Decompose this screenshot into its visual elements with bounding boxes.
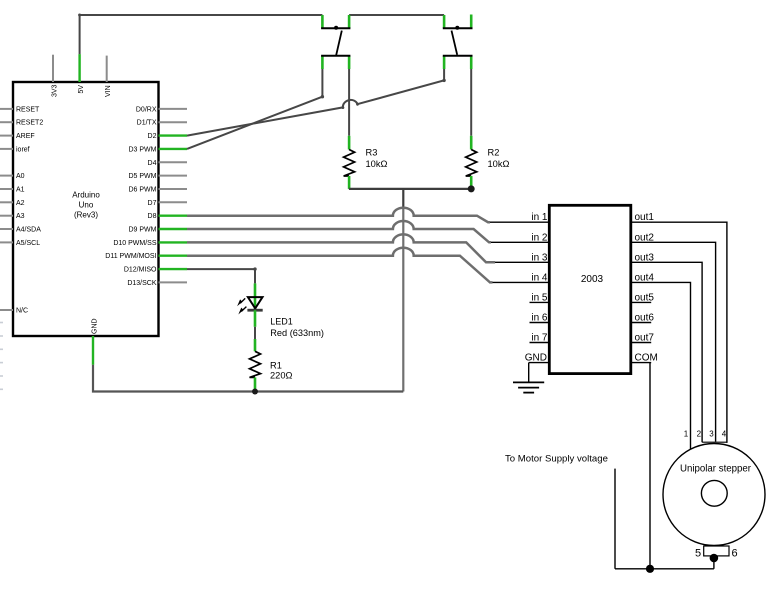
wire D2 to S2 bottom-left (with hop over S1-R3 wire): [187, 69, 444, 136]
svg-text:GND: GND: [92, 318, 99, 334]
wire out1 to stepper pin 4: [651, 222, 727, 443]
S2 lever: [452, 31, 458, 55]
svg-text:D8: D8: [148, 213, 157, 220]
svg-text:A5/SCL: A5/SCL: [16, 240, 40, 247]
svg-text:6: 6: [731, 548, 737, 560]
wire D9 to in2 (hop over vertical): [187, 221, 491, 242]
S1 leg bottom-left: [321, 56, 324, 69]
svg-text:A4/SDA: A4/SDA: [16, 227, 41, 234]
svg-text:VIN: VIN: [105, 85, 112, 97]
S1 pivot dot: [334, 26, 338, 30]
svg-text:in 3: in 3: [531, 252, 548, 263]
M1 pin numbers 1-4: [684, 430, 727, 439]
Arduino top pin stub 5V (green): [78, 54, 80, 82]
bend dot 5V wire corner: [78, 14, 81, 17]
svg-text:10kΩ: 10kΩ: [488, 159, 510, 169]
svg-text:LED1: LED1: [270, 317, 293, 327]
wire D12 to LED1: [187, 269, 255, 283]
LED1: [237, 283, 324, 338]
S1 leg bottom-right: [348, 56, 351, 69]
svg-text:10kΩ: 10kΩ: [366, 159, 388, 169]
pin in1: [487, 221, 549, 223]
pin out2: [631, 241, 651, 243]
S1 top bar: [321, 27, 350, 29]
R1 bottom leg: [254, 377, 257, 391]
svg-text:AREF: AREF: [16, 133, 35, 140]
S2 pivot dot: [455, 26, 459, 30]
svg-text:To Motor Supply voltage: To Motor Supply voltage: [505, 454, 608, 465]
S1 leg top-left: [321, 15, 324, 28]
IC right pin lines: [631, 222, 651, 362]
M1 body circle: [663, 444, 765, 546]
bend dot D3 wire: [321, 95, 324, 98]
ground symbol: [513, 382, 544, 392]
resistor R2: [466, 136, 510, 189]
svg-text:RESET: RESET: [16, 106, 40, 113]
R3 zigzag: [344, 150, 355, 177]
R1 zigzag: [250, 351, 261, 377]
svg-text:R3: R3: [366, 148, 378, 158]
R3 bottom leg: [348, 176, 351, 189]
pin out7: [631, 342, 651, 344]
svg-text:Uno: Uno: [79, 201, 94, 210]
bend dot D2 wire: [442, 79, 445, 82]
svg-text:in 1: in 1: [531, 212, 548, 223]
Arduino bottom pin stub GND (green): [92, 336, 94, 365]
LED1 cathode bar: [247, 309, 262, 312]
svg-text:D11 PWM/MOSI: D11 PWM/MOSI: [105, 253, 156, 260]
svg-text:D3 PWM: D3 PWM: [129, 146, 157, 153]
LED1 triangle: [248, 297, 263, 308]
S1 leg top-right: [348, 15, 351, 28]
svg-text:Unipolar stepper: Unipolar stepper: [680, 464, 752, 475]
pin out3: [631, 261, 651, 263]
svg-text:COM: COM: [635, 352, 658, 363]
junction dot at R2 bottom: [468, 185, 475, 192]
svg-text:RESET2: RESET2: [16, 120, 43, 127]
wire out2 to stepper pin 3: [651, 242, 716, 441]
wire COM down: [649, 363, 651, 569]
svg-text:D1/TX: D1/TX: [137, 120, 157, 127]
svg-text:D9 PWM: D9 PWM: [129, 227, 157, 234]
wire junction down to ground rail (gray segment): [402, 209, 404, 392]
wire stepper common down: [713, 558, 715, 569]
M1 shaft circle: [701, 480, 727, 506]
R2 zigzag: [466, 150, 477, 177]
Arduino right unconnected pin stubs: [159, 109, 188, 283]
wire S2 bottom-right to R2: [470, 69, 472, 136]
svg-text:D2: D2: [148, 133, 157, 140]
pin out4: [631, 281, 651, 283]
wire out4 to stepper pin 1: [651, 282, 691, 449]
Arduino left pin labels: [16, 106, 43, 314]
resistor R3: [344, 136, 388, 189]
pin in6: [530, 322, 550, 324]
svg-text:in 6: in 6: [531, 313, 548, 324]
wire D8 to in1 (hop over vertical): [187, 208, 490, 223]
LED1 arrow 2: [241, 307, 246, 312]
junction dot COM/bottom wire: [646, 565, 654, 573]
wire top rail between buttons: [349, 14, 444, 16]
wire D3 to S1 bottom-left: [187, 69, 322, 149]
pin GND: [529, 362, 550, 364]
pin in7: [530, 342, 550, 344]
svg-text:1: 1: [684, 430, 689, 439]
R1 top leg: [254, 339, 257, 351]
S2 leg bottom-right: [470, 56, 473, 69]
svg-text:in 7: in 7: [531, 333, 548, 344]
S1 lever: [336, 31, 342, 56]
svg-text:in 2: in 2: [531, 232, 548, 243]
svg-text:(Rev3): (Rev3): [74, 211, 98, 220]
svg-text:A3: A3: [16, 213, 25, 220]
wire junction down (dark segment): [402, 189, 404, 209]
Arduino right connected pin stubs (green): [159, 136, 188, 270]
S1 bottom bar: [321, 55, 350, 57]
svg-text:D13/SCK: D13/SCK: [127, 280, 157, 287]
pushbutton S1: [321, 15, 350, 69]
LED1 arrow 1: [240, 298, 245, 303]
IC right pin labels: [635, 212, 658, 363]
pin in2: [488, 241, 549, 243]
pin COM: [631, 362, 651, 364]
pin in4: [489, 281, 549, 283]
svg-text:5: 5: [695, 548, 701, 560]
resistor R1: [250, 339, 293, 391]
S2 leg top-left: [443, 15, 446, 28]
svg-text:D7: D7: [148, 200, 157, 207]
svg-text:Red (633nm): Red (633nm): [270, 328, 324, 338]
svg-text:A0: A0: [16, 173, 25, 180]
S2 leg bottom-left: [443, 56, 446, 69]
IC left pin lines: [486, 222, 549, 362]
left edge cropped pin marks: [0, 323, 3, 390]
S2 bottom bar: [443, 55, 473, 57]
svg-text:D6 PWM: D6 PWM: [129, 187, 157, 194]
svg-text:GND: GND: [525, 352, 547, 363]
svg-text:in 4: in 4: [531, 272, 548, 283]
svg-text:out7: out7: [635, 333, 655, 344]
pin in5: [530, 301, 550, 303]
Arduino top pin stub 3V3: [52, 55, 54, 82]
svg-text:D10 PWM/SS: D10 PWM/SS: [113, 240, 157, 247]
wire IC GND to ground: [528, 363, 530, 383]
wire GND rail: [93, 365, 403, 392]
wire R3 bottom to R2 bottom: [349, 188, 471, 190]
IC 2003 body: [549, 205, 631, 373]
LED1 anode leg: [254, 283, 257, 310]
svg-text:220Ω: 220Ω: [270, 370, 293, 380]
svg-text:out6: out6: [635, 313, 655, 324]
svg-text:R1: R1: [270, 361, 282, 371]
S2 top bar: [443, 27, 473, 29]
Arduino U1 body: [13, 82, 159, 336]
svg-text:4: 4: [722, 430, 727, 439]
stepper M1: [663, 430, 765, 563]
wire bottom horizontal: [615, 568, 714, 570]
svg-text:N/C: N/C: [16, 308, 28, 315]
Arduino top pin labels: [52, 84, 113, 97]
svg-text:3V3: 3V3: [52, 84, 59, 97]
svg-text:ioref: ioref: [16, 146, 30, 153]
wire LED1 to R1: [254, 327, 256, 339]
wire to motor supply: [614, 469, 616, 569]
R2 top leg: [470, 136, 473, 150]
pin out6: [631, 322, 651, 324]
wire D10 to in3 (hop over vertical): [187, 234, 495, 262]
svg-text:D5 PWM: D5 PWM: [129, 173, 157, 180]
pin out5: [631, 301, 651, 303]
M1 bottom tab: [704, 546, 729, 556]
svg-text:D12/MISO: D12/MISO: [124, 267, 157, 274]
IC left pin labels: [525, 212, 548, 363]
svg-text:2003: 2003: [581, 274, 604, 285]
Arduino U1 title: [72, 191, 100, 220]
LED1 cathode leg: [254, 310, 257, 327]
svg-text:in 5: in 5: [531, 292, 548, 303]
Arduino top pin stub VIN: [106, 56, 108, 82]
svg-text:A2: A2: [16, 200, 25, 207]
R3 top leg: [348, 136, 351, 150]
svg-text:3: 3: [709, 430, 714, 439]
wire 5V to top rail: [80, 15, 323, 54]
svg-text:Arduino: Arduino: [72, 191, 100, 200]
wire D11 to in4 (hop over vertical): [187, 248, 493, 283]
pin in3: [486, 261, 549, 263]
svg-text:5V: 5V: [78, 85, 85, 94]
svg-text:R2: R2: [488, 148, 500, 158]
D2 wire hop foot dots: [342, 106, 345, 109]
wire S1 bottom-right to R3: [348, 69, 350, 136]
junction dot R1 to GND rail: [252, 389, 258, 395]
Arduino left pin stubs: [0, 109, 13, 310]
pin out1: [631, 221, 651, 223]
svg-text:D0/RX: D0/RX: [136, 106, 157, 113]
pushbutton S2: [443, 15, 473, 70]
svg-text:out5: out5: [635, 292, 655, 303]
bend dot D12 wire: [253, 267, 256, 270]
svg-text:A1: A1: [16, 187, 25, 194]
svg-text:2: 2: [697, 430, 702, 439]
R2 bottom leg: [470, 176, 473, 189]
S2 leg top-right: [470, 15, 473, 29]
svg-text:D4: D4: [148, 160, 157, 167]
Arduino right pin labels: [105, 106, 157, 287]
wire out3 to stepper pin 2: [651, 262, 702, 442]
stepper top tab chord: [702, 441, 727, 443]
M1 common junction dot: [710, 554, 719, 563]
